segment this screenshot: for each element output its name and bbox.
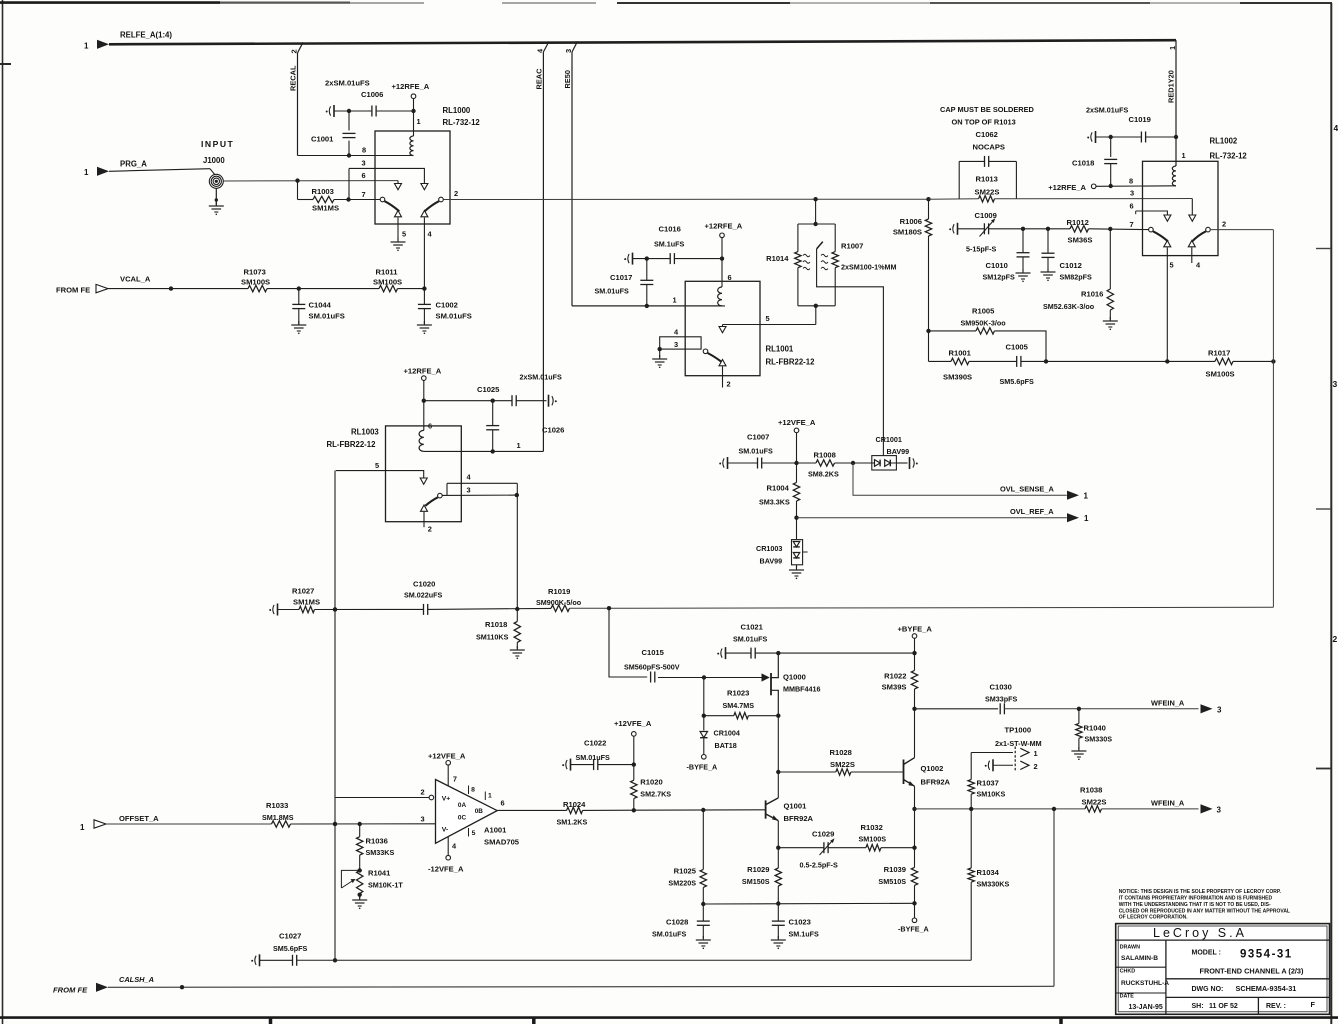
svg-text:SM110KS: SM110KS (476, 633, 509, 642)
arrow WFEIN_A lower (1201, 804, 1213, 813)
resistor R1039 (878, 865, 917, 918)
svg-text:WITH THE UNDERSTANDING THAT IT: WITH THE UNDERSTANDING THAT IT IS NOT TO… (1119, 902, 1271, 908)
label FROM FE (VCAL) (56, 286, 90, 295)
svg-text:RL-FBR22-12: RL-FBR22-12 (327, 440, 377, 449)
title MODEL 9354-31 (1192, 949, 1293, 961)
pin 3 RL1003 wire (442, 486, 519, 498)
sheet ref 1 OVL_SENSE (1084, 492, 1089, 501)
capacitor C1023 (772, 904, 819, 939)
wire main node vertical (926, 197, 930, 361)
arrow OVL_REF_A (1067, 513, 1079, 522)
resistor R1032 (859, 823, 887, 851)
svg-text:R1013: R1013 (976, 175, 998, 184)
bus bit label 1 RED1Y20 (1168, 46, 1177, 50)
svg-text:R1001: R1001 (949, 349, 972, 358)
svg-text:R1023: R1023 (727, 689, 749, 698)
net label CALSH_A (119, 975, 154, 984)
wire RE50 (572, 41, 725, 306)
op-amp A1001 (436, 780, 520, 847)
pin 6 RL1001 (728, 273, 732, 282)
svg-text:5: 5 (375, 461, 379, 470)
wire RECAL (298, 42, 304, 155)
svg-text:SM180S: SM180S (893, 228, 922, 237)
net label OFFSET_A (119, 814, 159, 823)
capacitor C1001 (311, 111, 356, 158)
svg-text:C1010: C1010 (986, 261, 1008, 270)
arrow OVL_SENSE_A (1067, 491, 1079, 500)
coil RL1003 (419, 430, 424, 451)
svg-text:RELFE_A(1:4): RELFE_A(1:4) (120, 31, 172, 40)
svg-text:SCHEMA-9354-31: SCHEMA-9354-31 (1236, 984, 1297, 993)
resistor R1034 (968, 809, 1009, 960)
wire Q1002 emitter chain (912, 786, 916, 867)
svg-text:2x1-ST-W-MM: 2x1-ST-W-MM (995, 739, 1042, 748)
svg-text:SM33KS: SM33KS (366, 848, 395, 857)
svg-text:C1016: C1016 (659, 225, 681, 234)
resistor R1029 (742, 848, 782, 906)
svg-text:1: 1 (1034, 749, 1038, 758)
resistor R1001 (929, 349, 973, 382)
svg-text:2xSM.01uFS: 2xSM.01uFS (325, 79, 370, 88)
pin 1 RL1000 (417, 117, 421, 126)
contact tip RL1002 right (1188, 241, 1195, 264)
svg-text:+12VFE_A: +12VFE_A (614, 719, 652, 728)
svg-text:1: 1 (1168, 46, 1177, 50)
contact tip RL1003 (421, 505, 428, 527)
wire RELFE_A bus (109, 40, 1176, 44)
zone label 3 (1333, 379, 1338, 389)
wire pin2 line right of node (929, 198, 1193, 201)
svg-text:ON TOP OF R1013: ON TOP OF R1013 (952, 118, 1016, 127)
resistor R1016 (1043, 229, 1114, 320)
svg-text:C1026: C1026 (542, 426, 564, 435)
svg-text:+12RFE_A: +12RFE_A (404, 367, 442, 376)
svg-text:SM8.2KS: SM8.2KS (808, 470, 839, 479)
power +12RFE_A at RL1000 (392, 82, 430, 136)
capacitor C1044 (292, 289, 344, 324)
power +BYFE_A (898, 625, 933, 654)
svg-text:REAC: REAC (535, 68, 544, 90)
pin 5 A1001 (469, 828, 476, 837)
wire RL1003 pin34 to C1020 node (516, 483, 518, 609)
svg-text:3: 3 (1217, 706, 1222, 715)
power +12RFE_A at RL1003 (404, 367, 442, 431)
resistor R1027 (278, 587, 321, 613)
svg-text:SM330S: SM330S (1085, 735, 1113, 744)
pin 4 RL1003 wire (447, 473, 517, 496)
diode CR1003 (756, 518, 808, 569)
ground at C1012 (1041, 268, 1056, 281)
bus entry arrow CALSH_A (96, 983, 108, 992)
svg-text:3: 3 (1333, 379, 1338, 389)
svg-text:7: 7 (1130, 220, 1134, 229)
capacitor C1002 (418, 289, 472, 324)
wire WFEIN lower line (915, 807, 1086, 811)
svg-text:NOCAPS: NOCAPS (973, 143, 1006, 152)
capacitor C1027 (251, 932, 971, 967)
svg-text:SM950K-3/oo: SM950K-3/oo (961, 319, 1007, 328)
capacitor C1026 (486, 401, 564, 454)
svg-text:5: 5 (1170, 261, 1174, 270)
title REV F (1266, 1000, 1316, 1010)
wire R1014 block bottom rail (798, 304, 835, 325)
capacitor C1007 (719, 433, 799, 470)
notice text block (1119, 889, 1290, 920)
svg-text:C1029: C1029 (812, 830, 834, 839)
wire pin2 node to R1014 block (813, 197, 817, 226)
bus entry arrow VCAL_A (96, 284, 108, 292)
svg-text:R1018: R1018 (485, 620, 507, 629)
coil RL1001 (718, 287, 722, 306)
svg-text:R1073: R1073 (244, 268, 266, 277)
svg-text:5: 5 (402, 230, 406, 239)
svg-text:C1028: C1028 (666, 918, 688, 927)
net label REAC (535, 68, 544, 90)
svg-text:R1004: R1004 (767, 484, 790, 493)
pin 3 RL1002 wire (1130, 189, 1192, 216)
svg-text:SM10K-1T: SM10K-1T (368, 881, 403, 890)
resistor R1003 (298, 181, 381, 213)
svg-text:3: 3 (674, 340, 678, 349)
capacitor C1009 trimmer (949, 211, 1023, 254)
resistor R1004 (759, 463, 800, 520)
wire C1015 to Q1000 gate (658, 675, 762, 679)
svg-text:CALSH_A: CALSH_A (119, 975, 154, 984)
coil RL1002 (1172, 166, 1176, 186)
svg-text:R1036: R1036 (366, 837, 388, 846)
svg-text:RL-732-12: RL-732-12 (443, 118, 481, 127)
svg-text:SM1MS: SM1MS (312, 204, 339, 213)
wire R1012 to RL1002 pin7 (1089, 227, 1149, 231)
svg-text:R1022: R1022 (884, 672, 906, 681)
svg-text:R1011: R1011 (376, 268, 399, 277)
contact throw 3 RL1000 (421, 184, 428, 190)
svg-text:NOTICE: THIS DESIGN IS THE SOL: NOTICE: THIS DESIGN IS THE SOLE PROPERTY… (1119, 889, 1282, 895)
svg-text:+12RFE_A: +12RFE_A (705, 222, 743, 231)
net label RECAL (289, 65, 298, 91)
pin 7 RL1002 (1130, 220, 1134, 229)
wire RED1Y20 (1175, 40, 1177, 166)
svg-text:1: 1 (417, 117, 421, 126)
bus bit label 3 RE50 (564, 49, 573, 53)
svg-text:+BYFE_A: +BYFE_A (898, 625, 933, 634)
svg-text:1: 1 (673, 296, 677, 305)
value label 2xSM.01uFS C1006 (325, 79, 370, 88)
sheet ref 1 RELFE (84, 42, 89, 51)
pin 4 RL1000 (428, 230, 433, 239)
svg-text:3: 3 (467, 486, 471, 495)
testpoint TP1000 (971, 726, 1041, 772)
label J1000 (203, 156, 225, 165)
resistor R1028 (778, 748, 902, 775)
relay RL1000 (375, 106, 480, 224)
svg-text:F: F (1311, 1000, 1316, 1009)
capacitor C1017 (595, 259, 654, 308)
transistor Q1002 (904, 758, 951, 787)
svg-text:R1006: R1006 (900, 217, 922, 226)
zone label 2 (1333, 634, 1338, 644)
svg-text:6: 6 (428, 422, 432, 431)
contact throw 5 RL1001 (719, 327, 726, 333)
svg-text:MODEL :: MODEL : (1192, 950, 1221, 957)
wire Q1000 gate bias vertical (703, 677, 705, 731)
svg-text:5: 5 (472, 830, 476, 837)
svg-text:WFEIN_A: WFEIN_A (1151, 699, 1185, 708)
svg-text:2: 2 (727, 380, 731, 389)
net label VCAL_A (120, 275, 151, 284)
pin 1 RL1003 wire (424, 441, 544, 451)
ground at C1028 (696, 936, 711, 949)
resistor R1014 (766, 224, 810, 306)
svg-text:R1040: R1040 (1084, 724, 1106, 733)
svg-text:WFEIN_A: WFEIN_A (1151, 799, 1185, 808)
svg-text:5: 5 (766, 314, 770, 323)
wire J1000 to RL1000 pin6 (223, 178, 398, 182)
sheet ref 1 PRG (84, 168, 89, 177)
svg-text:BAT18: BAT18 (715, 741, 737, 750)
resistor R1007 (821, 224, 896, 306)
contact throw 6 RL1002 (1164, 215, 1171, 221)
svg-text:TP1000: TP1000 (1005, 726, 1032, 735)
resistor R1073 (241, 268, 270, 292)
net label RELFE_A(1:4) (120, 31, 172, 40)
resistor R1040 (1076, 709, 1113, 750)
svg-text:C1022: C1022 (584, 739, 606, 748)
svg-text:7: 7 (362, 190, 366, 199)
resistor R1024 (557, 800, 588, 827)
svg-text:2: 2 (1333, 634, 1338, 644)
svg-text:C1030: C1030 (990, 683, 1012, 692)
svg-text:1: 1 (1084, 514, 1089, 523)
wire offset node vertical (333, 471, 337, 961)
wire R1014 block top rail (798, 223, 835, 225)
resistor R1025 (668, 810, 706, 906)
svg-text:R1003: R1003 (312, 187, 334, 196)
svg-text:SM510S: SM510S (878, 877, 906, 886)
contact tip RL1002 left (1164, 241, 1171, 362)
svg-text:SM1.8MS: SM1.8MS (262, 813, 294, 822)
pin 3 RL1000 wire (349, 159, 424, 200)
page border bottom (0, 1018, 1338, 1024)
resistor R1006 (893, 217, 932, 237)
title FRONT-END CHANNEL A (1200, 966, 1304, 975)
svg-text:SM36S: SM36S (1068, 236, 1093, 245)
svg-text:SM.01uFS: SM.01uFS (739, 447, 774, 456)
svg-text:3: 3 (421, 815, 425, 824)
svg-text:VCAL_A: VCAL_A (120, 275, 151, 284)
svg-text:SM52.63K-3/oo: SM52.63K-3/oo (1043, 302, 1095, 311)
svg-text:1: 1 (1084, 492, 1089, 501)
title LeCroy S.A (1153, 926, 1247, 940)
capacitor C1005 (969, 343, 1048, 387)
svg-text:DRAWN: DRAWN (1120, 944, 1140, 950)
pin 6 RL1003 (428, 422, 432, 431)
resistor R1019 (536, 587, 582, 612)
svg-text:SM560pFS-500V: SM560pFS-500V (624, 663, 680, 672)
power -BYFE_A at CR1004 (687, 755, 718, 772)
title DRAWN (1120, 944, 1159, 962)
connector J1000 (209, 174, 223, 188)
svg-text:SM12pFS: SM12pFS (983, 273, 1016, 282)
power +12VFE_A at C1007 (778, 418, 816, 463)
relay armature left RL1002 (1149, 227, 1168, 241)
svg-text:1: 1 (488, 793, 492, 800)
capacitor C1028 (652, 904, 710, 939)
wire C1028 C1023 rail (703, 901, 916, 905)
svg-text:SM1.2KS: SM1.2KS (557, 818, 588, 827)
svg-text:SM22S: SM22S (975, 188, 1000, 197)
ground at R1041 (352, 896, 367, 909)
wire C1030 line (915, 708, 999, 710)
wire VCAL_A (108, 286, 248, 290)
capacitor C1029 trimmer (778, 830, 866, 870)
wire R1038 to WFEIN (1102, 808, 1199, 810)
svg-text:8: 8 (1129, 177, 1133, 186)
relay armature RL1003 (425, 493, 442, 505)
capacitor C1030 (985, 683, 1018, 715)
svg-text:SM330KS: SM330KS (977, 880, 1010, 889)
resistor R1013 (975, 175, 1000, 203)
title DATE (1120, 994, 1163, 1011)
ground at CR1003 (789, 566, 804, 579)
svg-text:INPUT: INPUT (201, 139, 234, 149)
capacitor C1006 (326, 90, 416, 117)
wire R1019 to RL1002 pin2 drop (570, 606, 1274, 610)
arrow WFEIN_A upper (1201, 704, 1213, 713)
relay RL1003 (327, 426, 462, 522)
svg-text:RL1000: RL1000 (443, 106, 471, 115)
svg-text:3: 3 (362, 159, 366, 168)
wire R1027 to C1020 (315, 607, 424, 611)
pin 3 RL1001 (658, 340, 679, 358)
wire VCAL mid (267, 286, 379, 290)
svg-text:R1027: R1027 (292, 587, 314, 596)
net label PRG_A (120, 160, 147, 169)
svg-text:SM220S: SM220S (668, 879, 696, 888)
svg-text:Q1000: Q1000 (783, 673, 806, 682)
svg-text:R1014: R1014 (766, 254, 789, 263)
pin 2 RL1001 (727, 380, 731, 389)
capacitor C1018 (1072, 137, 1117, 188)
bus entry arrow OFFSET_A (94, 820, 106, 828)
resistor R1023 (702, 689, 781, 719)
pin 4 A1001 power -12VFE_A (428, 837, 464, 874)
svg-text:R1024: R1024 (563, 800, 586, 809)
svg-text:SM.01uFS: SM.01uFS (733, 635, 768, 644)
svg-text:OVL_REF_A: OVL_REF_A (1010, 507, 1054, 516)
svg-text:CR1003: CR1003 (756, 544, 782, 553)
coil RL1000 (410, 136, 414, 156)
capacitor C1012 (1042, 229, 1093, 282)
sheet ref 3 WFEIN upper (1217, 706, 1222, 715)
svg-text:9354-31: 9354-31 (1240, 949, 1293, 961)
svg-text:Q1002: Q1002 (921, 764, 944, 773)
svg-text:LeCroy S.A: LeCroy S.A (1153, 926, 1247, 940)
diode CR1001 (872, 435, 909, 470)
wire Q1002 collector (914, 709, 916, 758)
svg-text:C1009: C1009 (975, 211, 997, 220)
svg-text:RL-FBR22-12: RL-FBR22-12 (766, 358, 816, 367)
wire C1009 node (1021, 227, 1070, 231)
svg-text:V-: V- (442, 827, 448, 834)
contact throw 3 RL1002 (1189, 215, 1196, 221)
pin 2 A1001 (421, 788, 434, 800)
svg-text:CR1001: CR1001 (876, 435, 902, 444)
page border top (0, 1, 1332, 4)
svg-text:+12RFE_A: +12RFE_A (392, 82, 430, 91)
net label RED1Y20 (1167, 70, 1176, 103)
pin 1 RL1002 (1182, 151, 1186, 160)
resistor R1005 (926, 307, 1006, 335)
svg-text:2: 2 (290, 49, 299, 53)
net label RE50 (563, 70, 572, 89)
svg-text:CAP MUST BE SOLDERED: CAP MUST BE SOLDERED (940, 105, 1035, 114)
ground at R1016 (1103, 317, 1118, 330)
svg-text:C1020: C1020 (413, 580, 435, 589)
svg-text:2: 2 (421, 788, 425, 797)
wire Q1001 emitter (776, 821, 780, 850)
svg-text:R1025: R1025 (674, 867, 697, 876)
relay armature right RL1002 (1192, 227, 1210, 241)
title SH 11 OF 52 (1192, 1003, 1238, 1010)
relay armature right RL1000 (425, 197, 444, 211)
svg-text:SM.01uFS: SM.01uFS (576, 753, 611, 762)
svg-text:C1018: C1018 (1072, 159, 1094, 168)
svg-text:6: 6 (728, 273, 732, 282)
title DWG NO (1192, 984, 1297, 993)
svg-text:SM.022uFS: SM.022uFS (404, 591, 443, 600)
capacitor C1016 (624, 225, 724, 265)
svg-text:RE50: RE50 (563, 70, 572, 89)
svg-text:2xSM100-1%MM: 2xSM100-1%MM (841, 263, 897, 272)
svg-text:0.5-2.5pF-S: 0.5-2.5pF-S (800, 861, 839, 870)
resistor R1020 (631, 765, 672, 811)
svg-text:2: 2 (1034, 762, 1038, 771)
svg-text:1: 1 (84, 168, 89, 177)
bus entry arrow RELFE_A (97, 40, 109, 49)
svg-text:CR1004: CR1004 (714, 729, 740, 738)
pin 4 RL1002 (1196, 261, 1201, 270)
svg-text:V+: V+ (442, 796, 451, 803)
svg-text:13-JAN-95: 13-JAN-95 (1129, 1004, 1163, 1011)
wire OFFSET_A (106, 823, 272, 825)
svg-text:SM.01uFS: SM.01uFS (652, 930, 687, 939)
svg-text:SM5.6pFS: SM5.6pFS (1000, 377, 1035, 386)
svg-text:1: 1 (1182, 151, 1186, 160)
relay RL1002 (1143, 137, 1248, 256)
svg-text:R1007: R1007 (841, 242, 863, 251)
svg-text:6: 6 (501, 799, 505, 808)
relay RL1001 (685, 281, 815, 375)
svg-text:C1062: C1062 (976, 130, 998, 139)
power +12VFE_A at R1020 (614, 719, 652, 765)
svg-text:2xSM.01uFS: 2xSM.01uFS (520, 373, 563, 382)
wire C1005 to R1017 (1046, 359, 1215, 363)
svg-text:SMAD705: SMAD705 (484, 838, 520, 847)
svg-text:3: 3 (564, 49, 573, 53)
svg-text:C1005: C1005 (1006, 343, 1029, 352)
svg-text:6: 6 (1130, 202, 1134, 211)
pin 8 RL1000 wire (298, 146, 414, 156)
net label WFEIN_A lower (1151, 799, 1185, 808)
svg-text:C1021: C1021 (741, 623, 764, 632)
resistor R1036 (357, 824, 395, 873)
svg-text:2: 2 (1222, 220, 1226, 229)
contact tip RL1000 right (421, 211, 428, 289)
relay armature left RL1000 (380, 197, 399, 211)
capacitor C1021 (717, 623, 917, 660)
zone label 4 (1334, 123, 1338, 133)
